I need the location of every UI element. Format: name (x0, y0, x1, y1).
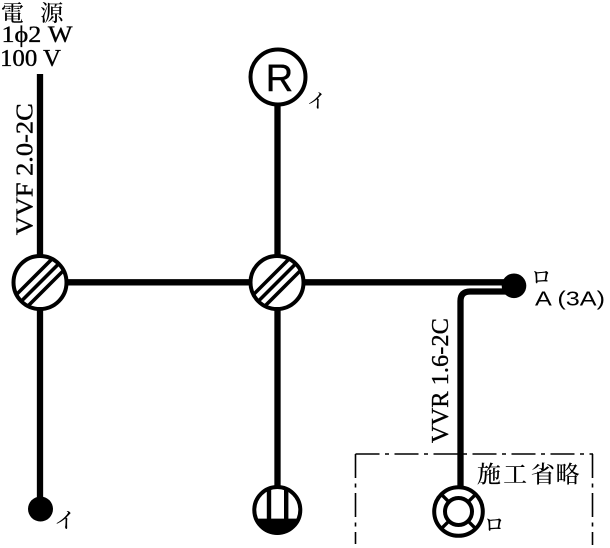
svg-text:VVR 1.6-2C: VVR 1.6-2C (427, 318, 454, 443)
label イ (switch) (57, 511, 71, 529)
svg-text:R: R (266, 58, 293, 100)
construction-omitted dashed box 施工省略エリア (356, 454, 594, 545)
wire: power supply drop (VVF 2.0-2C) (37, 74, 43, 260)
svg-text:100 V: 100 V (0, 46, 62, 72)
junction box J1 (left, VVF joint box) (5, 236, 75, 329)
ceiling body (引掛シーリング) symbol (254, 487, 300, 535)
label ロ (switch) (534, 271, 548, 283)
switch ロ with pilot? automatic switch A(3A), filled dot (502, 274, 527, 299)
switch イ (single-pole switch, filled dot) (28, 497, 53, 522)
power source label 電源 (2, 2, 62, 23)
junction box J2 (center, VVF joint box) (242, 236, 312, 329)
wire: lamp R to joint box 2 (274, 77, 280, 260)
wire: joint box 1 to switch イ (37, 305, 43, 498)
svg-text:1ϕ2 W: 1ϕ2 W (2, 22, 73, 47)
svg-text:A (3A): A (3A) (535, 288, 605, 311)
wire: switch ロ down to omitted area (VVR 1.6-2C) (461, 292, 509, 491)
lamp receptacle in omitted area (double circle w/ ticks) ロ (434, 487, 483, 536)
label イ (lamp) (309, 92, 322, 108)
label ロ (receptacle) (487, 519, 501, 531)
wire: joint box 2 to ceiling body (274, 305, 280, 489)
label 施工省略 (477, 462, 579, 484)
lamp R (ランプレセプタクル) イ (251, 50, 306, 105)
svg-text:VVF 2.0-2C: VVF 2.0-2C (12, 103, 39, 235)
wire: horizontal run joint box1 - joint box2 - switch ロ (40, 279, 510, 285)
